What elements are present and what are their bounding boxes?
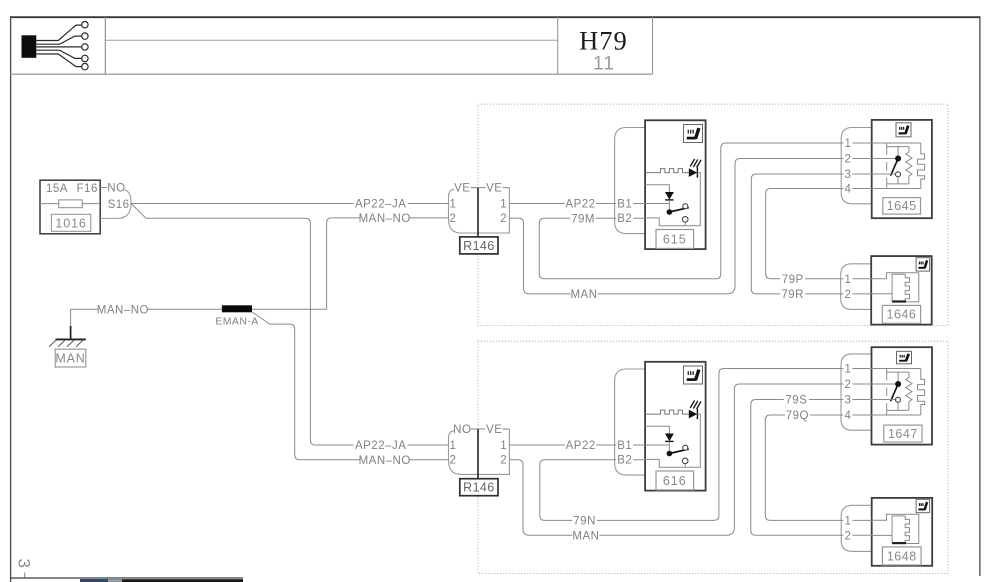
svg-text:S16: S16 [108, 199, 130, 211]
svg-text:2: 2 [500, 213, 507, 225]
svg-text:79S: 79S [785, 395, 807, 407]
svg-text:2: 2 [844, 154, 851, 166]
svg-text:B1: B1 [617, 440, 632, 452]
svg-text:1646: 1646 [887, 308, 917, 322]
svg-text:B1: B1 [617, 199, 632, 211]
svg-text:1: 1 [500, 199, 507, 211]
svg-text:R146: R146 [463, 481, 494, 495]
svg-text:2: 2 [844, 379, 851, 391]
svg-text:MAN: MAN [570, 289, 597, 301]
svg-text:VE: VE [454, 183, 470, 195]
svg-text:1: 1 [500, 440, 507, 452]
svg-text:NO: NO [453, 424, 471, 436]
svg-text:2: 2 [449, 454, 456, 466]
svg-text:MAN–NO: MAN–NO [359, 213, 411, 225]
svg-text:MAN: MAN [55, 351, 85, 365]
svg-text:1648: 1648 [887, 549, 917, 563]
svg-text:79Q: 79Q [786, 410, 809, 422]
svg-text:1: 1 [844, 138, 851, 150]
svg-text:79M: 79M [571, 213, 595, 225]
svg-text:2: 2 [500, 454, 507, 466]
svg-text:1016: 1016 [55, 216, 86, 230]
svg-text:3: 3 [15, 559, 34, 568]
svg-text:AP22: AP22 [565, 199, 595, 211]
svg-text:1: 1 [449, 440, 456, 452]
svg-text:15A: 15A [46, 183, 68, 195]
svg-text:2: 2 [844, 289, 851, 301]
svg-text:1: 1 [844, 274, 851, 286]
svg-text:4: 4 [844, 184, 851, 196]
svg-text:1: 1 [449, 199, 456, 211]
svg-text:H79: H79 [579, 25, 628, 55]
svg-text:11: 11 [593, 52, 615, 74]
svg-text:MAN: MAN [572, 530, 599, 542]
svg-text:1645: 1645 [887, 199, 917, 213]
svg-text:B2: B2 [617, 455, 632, 467]
svg-text:79P: 79P [782, 274, 804, 286]
svg-text:AP22: AP22 [566, 440, 596, 452]
svg-text:MAN–NO: MAN–NO [97, 304, 149, 316]
svg-text:1: 1 [844, 364, 851, 376]
svg-text:616: 616 [663, 474, 687, 488]
svg-text:1: 1 [844, 516, 851, 528]
svg-text:615: 615 [663, 233, 687, 247]
svg-text:79R: 79R [781, 289, 804, 301]
svg-text:AP22–JA: AP22–JA [355, 199, 406, 211]
svg-text:VE: VE [486, 183, 502, 195]
svg-text:2: 2 [449, 213, 456, 225]
svg-text:AP22–JA: AP22–JA [355, 440, 406, 452]
svg-text:2: 2 [844, 530, 851, 542]
svg-text:3: 3 [844, 169, 851, 181]
svg-text:R146: R146 [463, 239, 494, 253]
svg-text:4: 4 [844, 410, 851, 422]
svg-text:3: 3 [844, 395, 851, 407]
svg-text:VE: VE [486, 424, 502, 436]
svg-text:EMAN-A: EMAN-A [215, 316, 258, 328]
svg-text:1647: 1647 [888, 427, 918, 441]
svg-text:NO: NO [107, 183, 125, 195]
svg-text:79N: 79N [573, 516, 596, 528]
svg-text:B2: B2 [617, 213, 632, 225]
svg-text:F16: F16 [77, 183, 98, 195]
svg-text:MAN–NO: MAN–NO [359, 455, 411, 467]
